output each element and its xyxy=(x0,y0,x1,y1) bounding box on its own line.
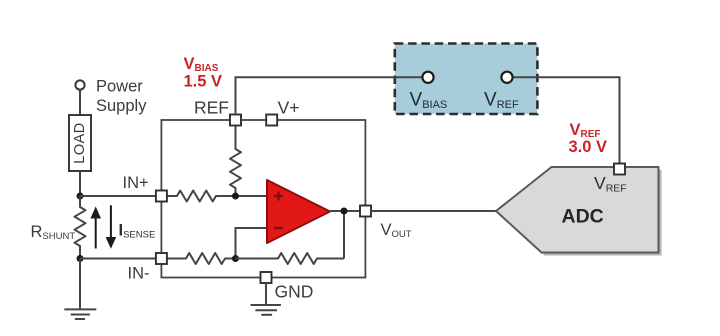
pin VOUT xyxy=(360,206,371,217)
wire: feedback up to output node xyxy=(343,211,345,259)
op-amp plus mark xyxy=(274,192,283,201)
svg-text:Supply: Supply xyxy=(96,97,147,115)
resistor RSHUNT xyxy=(75,196,86,259)
svg-text:IN-: IN- xyxy=(128,265,150,283)
pin ADC VREF xyxy=(614,164,625,175)
pin IN- xyxy=(156,253,167,264)
amplifier module outline xyxy=(161,120,365,278)
resistor R4 (feedback) xyxy=(236,253,345,264)
resistor R1 (IN+ to node C) xyxy=(167,191,236,202)
pin GND xyxy=(261,272,272,283)
ADC U2 xyxy=(496,167,659,253)
wire: VOUT to ADC xyxy=(371,210,496,212)
op-amp U1 xyxy=(267,180,330,243)
terminal VBIAS xyxy=(422,72,433,83)
resistor R2 (REF to node C) xyxy=(230,126,241,197)
node D junction xyxy=(232,255,239,262)
node A junction xyxy=(77,193,84,200)
op-amp minus mark xyxy=(274,227,283,229)
svg-text:LOAD: LOAD xyxy=(72,122,88,164)
wire: power supply to LOAD xyxy=(79,90,81,116)
wire: REF pin up and right to VBIAS terminal xyxy=(236,77,423,114)
wire: op-amp output to pin VOUT xyxy=(330,210,360,212)
wire: LOAD to node A xyxy=(79,171,81,196)
ground (GND pin) xyxy=(251,305,281,315)
current arrow up xyxy=(90,207,101,249)
pin REF xyxy=(230,115,241,126)
load L1 xyxy=(69,115,91,171)
terminal VREF (bias box) xyxy=(501,72,512,83)
pin IN+ xyxy=(156,191,167,202)
current arrow down ISENSE xyxy=(106,205,117,249)
svg-text:V+: V+ xyxy=(278,98,300,118)
wire: node B to pin IN- xyxy=(80,258,156,260)
wire: node B to ground xyxy=(79,259,81,310)
ground (left) xyxy=(64,309,96,319)
node C junction xyxy=(232,193,239,200)
node E junction (output) xyxy=(341,208,348,215)
wire: node A to pin IN+ xyxy=(80,195,156,197)
wire: node C to op-amp noninverting input xyxy=(236,195,268,197)
wire: op-amp inverting input to node D xyxy=(236,228,268,259)
svg-text:ADC: ADC xyxy=(562,206,604,228)
svg-text:REF: REF xyxy=(194,98,229,118)
wire: GND pin to ground xyxy=(265,283,267,304)
svg-text:3.0 V: 3.0 V xyxy=(569,138,608,156)
svg-text:GND: GND xyxy=(275,282,314,302)
svg-text:1.5 V: 1.5 V xyxy=(184,73,223,91)
resistor R3 (IN- to node D) xyxy=(167,253,236,264)
svg-text:Power: Power xyxy=(96,78,143,96)
pin V+ xyxy=(266,115,277,126)
svg-text:IN+: IN+ xyxy=(123,174,149,192)
ADC U2 shadow xyxy=(499,170,662,256)
bias generator box xyxy=(395,44,538,115)
power supply terminal xyxy=(75,80,84,89)
node B junction xyxy=(77,255,84,262)
wire: VREF terminal to ADC VREF pin xyxy=(513,77,620,163)
